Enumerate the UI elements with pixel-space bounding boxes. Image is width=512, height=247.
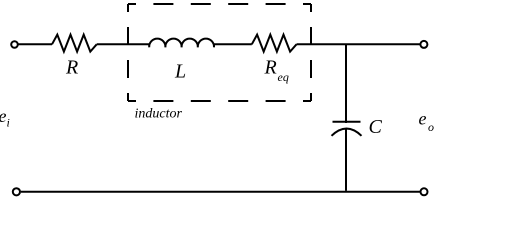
svg-text:i: i <box>7 116 10 130</box>
svg-text:C: C <box>369 116 383 138</box>
svg-text:inductor: inductor <box>135 107 183 122</box>
svg-text:R: R <box>264 57 277 79</box>
svg-text:eq: eq <box>278 70 289 84</box>
svg-text:L: L <box>174 61 186 83</box>
svg-text:o: o <box>428 120 434 134</box>
svg-text:R: R <box>65 57 78 79</box>
svg-text:e: e <box>419 109 427 129</box>
